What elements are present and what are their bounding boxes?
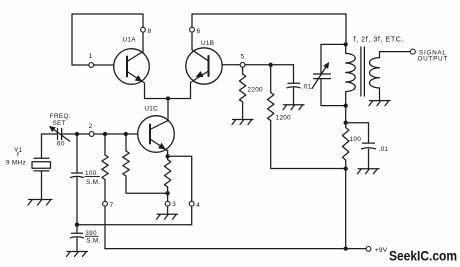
svg-text:+9V: +9V	[375, 247, 388, 254]
wire emitter node to pin4	[168, 156, 192, 224]
capacitor 60 arrow	[51, 128, 70, 142]
pin 1 terminal	[89, 63, 94, 68]
transistor U1C emitter stroke	[150, 139, 168, 151]
svg-text:f, 2f, 3f, ETC.: f, 2f, 3f, ETC.	[354, 34, 405, 43]
resistor 1200 wires	[271, 65, 346, 169]
wire U1B emitter down	[190, 84, 192, 99]
capacitor FREQ SET 60 plates	[58, 129, 62, 140]
svg-text:1200: 1200	[276, 115, 292, 122]
junction dot 390 top	[75, 223, 79, 227]
svg-text:8: 8	[148, 28, 152, 35]
pin 5 terminal	[240, 62, 245, 67]
svg-text:SET: SET	[53, 120, 66, 127]
capacitor 390 S.M. plates	[71, 225, 84, 238]
wire U1C emitter down	[167, 152, 169, 157]
ground below 2200	[232, 120, 253, 125]
svg-text:1: 1	[89, 53, 93, 60]
resistor x126 wires	[126, 134, 167, 193]
svg-text:SeekIC.com: SeekIC.com	[389, 248, 457, 264]
svg-text:4: 4	[196, 202, 200, 209]
svg-text:60: 60	[57, 141, 65, 148]
wire tank bottom down	[345, 106, 347, 123]
svg-text:100: 100	[85, 170, 97, 177]
junction dot 1200 top	[269, 63, 273, 67]
wire to cap .01 right	[346, 123, 369, 143]
wire to U1C collector	[167, 99, 169, 122]
transistor U1C base bar	[149, 125, 151, 144]
junction dot +9V rail	[344, 246, 348, 250]
svg-text:U1B: U1B	[201, 40, 214, 47]
svg-text:3: 3	[172, 201, 176, 208]
ground below .01 left	[283, 105, 304, 110]
pin 6 terminal	[190, 27, 195, 32]
transformer primary coil	[346, 44, 356, 105]
svg-text:2: 2	[89, 123, 93, 130]
svg-text:2200: 2200	[248, 87, 264, 94]
svg-text:.01: .01	[302, 83, 312, 90]
capacitor 100 S.M. wire top	[76, 134, 78, 173]
junction dot R100 top	[344, 121, 348, 125]
wire tank feed down	[345, 14, 347, 44]
wire crystal to ground	[41, 171, 43, 199]
wire node5 right to cap corner	[245, 64, 293, 66]
svg-text:FREQ.: FREQ.	[50, 113, 71, 120]
wire pin1 to U1A base	[94, 64, 114, 66]
wire 390 to ground	[76, 238, 78, 251]
pin 7 terminal	[103, 201, 108, 206]
resistor R x126	[123, 151, 129, 176]
transistor U1A base bar	[126, 57, 128, 77]
transistor U1B collector stroke	[192, 50, 209, 61]
wire emitter resistor to pin3	[167, 156, 169, 214]
op-amp U1B transistor circle	[186, 48, 222, 84]
resistor 2200 wires	[242, 67, 244, 119]
underline 390 S.M.	[85, 235, 99, 237]
pin 8 terminal	[141, 27, 146, 32]
resistor R1200	[268, 93, 274, 121]
junction dot emitter resistor bottom	[165, 191, 169, 195]
tank left bottom wire	[321, 79, 346, 106]
transformer core	[361, 47, 365, 96]
wire R100 wires	[345, 123, 347, 249]
ground below 390	[67, 252, 88, 257]
wire pin4 net along y224	[77, 224, 192, 226]
transistor U1C emitter arrowhead	[158, 143, 166, 150]
junction dot emitters	[166, 96, 170, 100]
transistor U1C collector stroke	[150, 121, 168, 130]
junction dot R pin7 top	[103, 132, 107, 136]
junction dot U1C emitter	[165, 154, 169, 158]
svg-text:7: 7	[110, 202, 114, 209]
variable capacitor tank plates	[314, 74, 331, 79]
svg-text:100: 100	[350, 136, 362, 143]
svg-text:6: 6	[197, 28, 201, 35]
transistor U1A collector stroke	[127, 52, 143, 62]
capacitor .01 right plates	[362, 143, 376, 149]
wire main oscillator line	[42, 133, 138, 135]
transistor U1A emitter stroke	[127, 72, 145, 84]
signal output terminal	[410, 49, 415, 54]
op-amp U1C transistor circle	[138, 116, 175, 153]
resistor R2200	[239, 74, 245, 102]
wire pin8 to U1A collector	[142, 14, 144, 52]
svg-text:f: f	[17, 152, 19, 159]
+9V terminal	[366, 247, 371, 252]
resistor R100	[343, 128, 349, 161]
resistor to pin 7 wires	[104, 134, 106, 249]
wire U1A emitter down	[144, 84, 146, 99]
pin 4 terminal	[189, 201, 194, 206]
transformer secondary coil	[370, 52, 411, 101]
crystal Y1 box	[32, 162, 51, 169]
capacitor .01 right wire to ground	[368, 149, 370, 168]
tank top wire	[321, 44, 346, 73]
crystal Y1 plates	[34, 158, 49, 171]
capacitor .01 left wires	[293, 65, 295, 105]
capacitor 100 S.M. plates	[71, 173, 84, 178]
resistor R pin7	[102, 155, 108, 180]
op-amp U1A transistor circle	[114, 49, 150, 85]
svg-text:9 MHz: 9 MHz	[6, 160, 26, 167]
ground below .01 right	[358, 169, 380, 174]
junction dot tank bottom	[344, 103, 348, 107]
transistor U1B emitter arrowhead	[196, 71, 204, 77]
underline 100 S.M.	[85, 176, 101, 178]
transistor U1B emitter stroke	[191, 71, 209, 83]
ground below secondary	[369, 101, 390, 106]
capacitor .01 left plates	[287, 83, 300, 88]
wire U1A feedback loop top	[72, 14, 143, 65]
svg-text:OUTPUT: OUTPUT	[418, 56, 448, 63]
junction dot R100 bottom	[344, 166, 348, 170]
transistor U1A emitter arrowhead	[135, 75, 143, 82]
pin 2 terminal	[89, 132, 94, 137]
svg-text:S.M.: S.M.	[86, 179, 100, 186]
svg-text:5: 5	[241, 54, 245, 61]
svg-text:U1C: U1C	[144, 106, 158, 113]
svg-text:U1A: U1A	[123, 37, 137, 44]
ground below Y1	[28, 200, 52, 206]
wire +9V rail	[105, 248, 366, 250]
wire emitter join line	[145, 98, 191, 100]
resistor U1C emitter	[164, 160, 170, 188]
junction dot 100SM top	[75, 132, 79, 136]
pin 3 terminal	[165, 201, 170, 206]
wire U1B base to node 5	[222, 64, 240, 66]
svg-text:.01: .01	[379, 146, 389, 153]
ground below pin 3	[157, 214, 178, 219]
wire 100SM down to 390 junction	[76, 178, 78, 225]
svg-text:S.M.: S.M.	[86, 238, 100, 245]
junction dot tank top	[344, 42, 348, 46]
wire U1B top loop to tank	[192, 14, 346, 50]
variable capacitor tank arrow	[312, 65, 328, 89]
crystal Y1 branch wire	[41, 134, 43, 158]
junction dot R x126 top	[124, 132, 128, 136]
transistor U1B base bar	[208, 56, 210, 76]
